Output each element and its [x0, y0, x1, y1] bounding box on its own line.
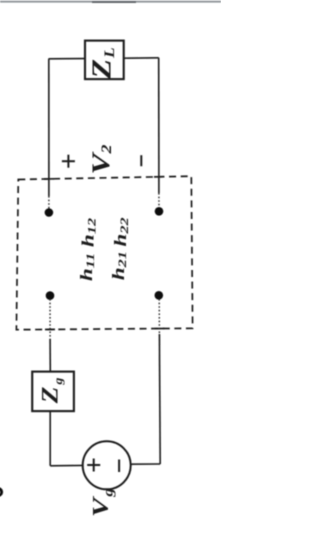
label V2 [88, 145, 115, 175]
wire right vertical to source [158, 334, 161, 464]
voltage source Vg circle [83, 441, 131, 489]
node bottom-left [46, 291, 55, 300]
wire left of ZL [49, 58, 85, 60]
minus sign V2 [140, 155, 142, 166]
label h11 [78, 253, 98, 281]
minus sign Vg [118, 460, 120, 473]
wire left vertical (V2 +) [48, 59, 50, 196]
wire Zg to source [49, 411, 51, 466]
impedance ZL box [85, 41, 124, 80]
label h22 [112, 217, 132, 246]
node bottom-right [155, 291, 164, 300]
page top edge shadow [0, 1, 221, 3]
wire to Vg circle [50, 464, 83, 466]
border dash at top-right crossing [154, 176, 164, 178]
label Vg [88, 488, 116, 517]
plus sign Vg [87, 459, 100, 472]
plus sign V2 [62, 155, 75, 168]
border dash at top-left crossing [44, 178, 54, 180]
border dash at bottom-left crossing [45, 328, 55, 330]
label Zg [37, 377, 65, 404]
wire right of ZL [124, 57, 159, 59]
page-edge partial glyph [0, 487, 3, 497]
node top-right [155, 207, 164, 216]
wire stub dotted to node [158, 193, 160, 207]
label ZL [87, 47, 118, 80]
wire stub dotted to node [48, 196, 50, 209]
two-port h-parameter dashed box [16, 176, 192, 330]
wire source to circle [131, 463, 161, 465]
wire stub dotted from node [158, 299, 160, 334]
impedance Zg box [32, 372, 74, 412]
border dash at bottom-right crossing [155, 328, 165, 330]
label h12 [79, 218, 99, 247]
node top-left [45, 208, 54, 217]
wire stub dotted from node [49, 299, 51, 339]
wire to Zg [49, 339, 51, 372]
wire right vertical (V2 -) [158, 58, 160, 193]
label h21 [110, 251, 130, 280]
